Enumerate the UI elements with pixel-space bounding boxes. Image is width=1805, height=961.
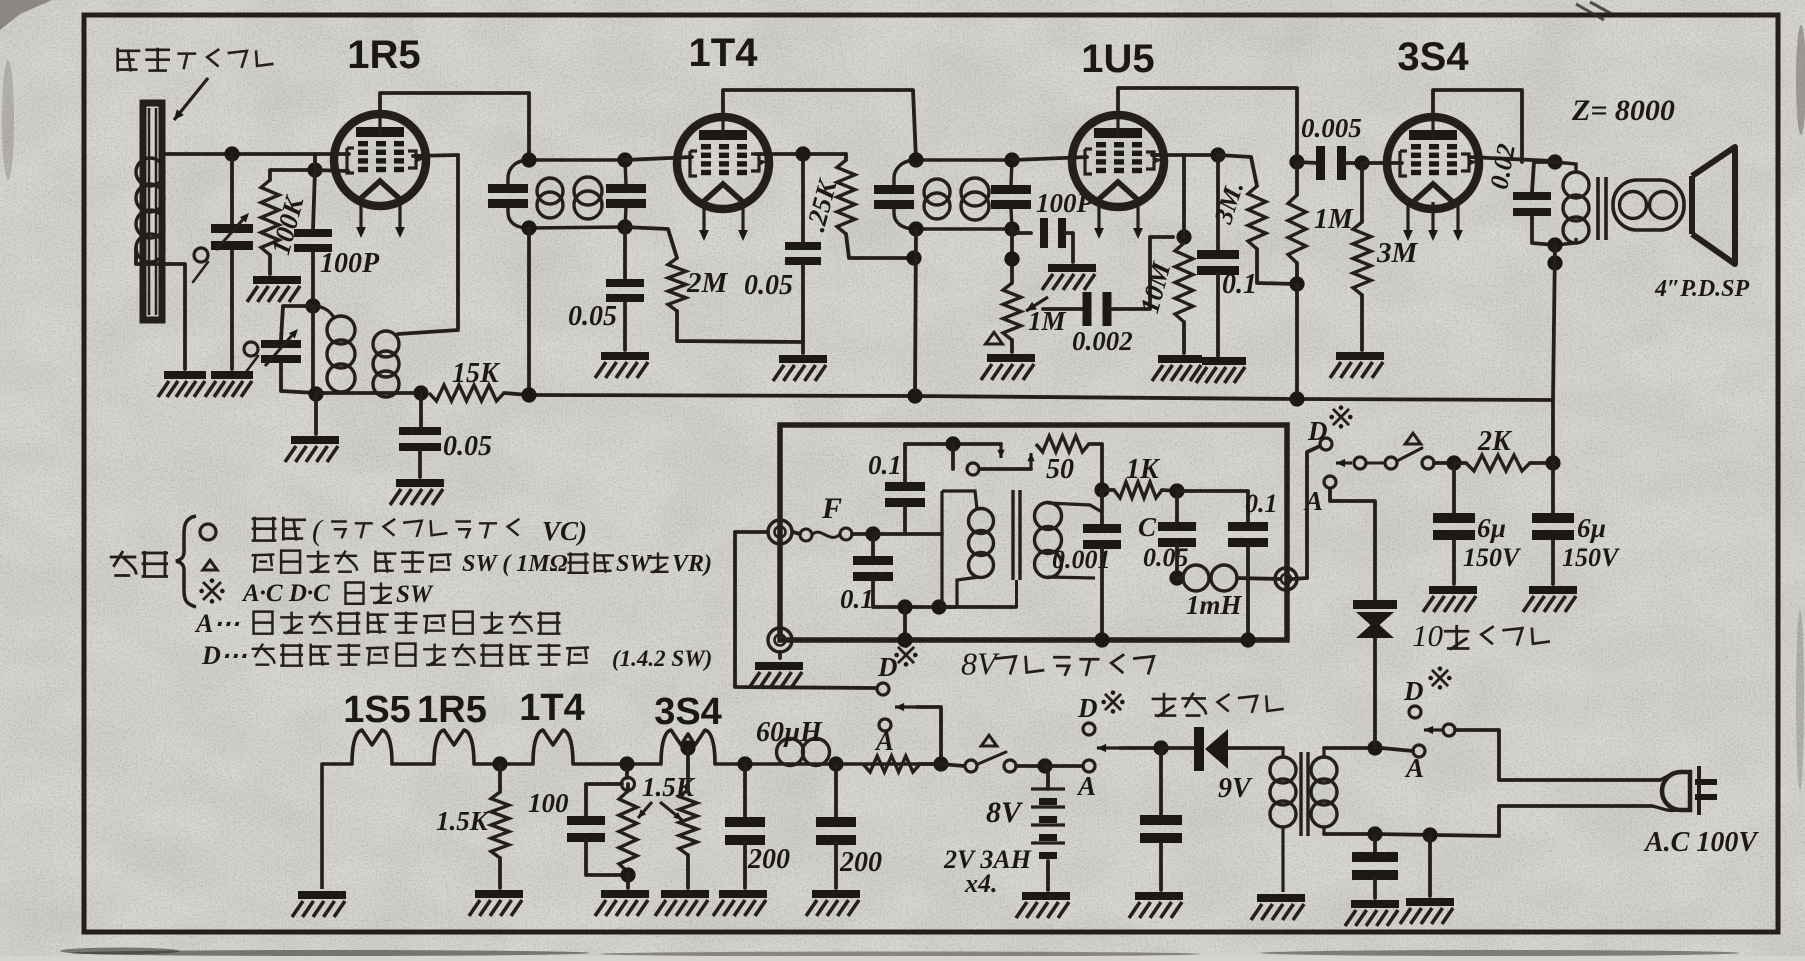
wire 0.1 lower to bottom <box>873 579 955 607</box>
wire 1T4 screen <box>756 152 846 156</box>
svg-text:3S4: 3S4 <box>1397 35 1469 79</box>
node selenium left <box>1153 740 1168 755</box>
svg-text:1U5: 1U5 <box>1081 37 1154 81</box>
ground <box>469 890 523 916</box>
node 1K right <box>1169 483 1184 498</box>
wire 1M to ground <box>1010 340 1014 352</box>
contact D below box <box>877 683 889 695</box>
wire to box bottom <box>903 607 907 638</box>
contact A below box <box>879 719 891 731</box>
wire to 0.05 decoupling <box>419 393 423 427</box>
junction rail 1M <box>1289 391 1304 406</box>
legend circle symbol <box>200 524 216 540</box>
svg-text:A: A <box>874 726 894 756</box>
svg-text:150V: 150V <box>1562 543 1621 572</box>
potentiometer 1.5K filament <box>619 791 637 872</box>
label 0.001 <box>1052 545 1111 574</box>
ground <box>158 371 206 397</box>
svg-text:60µH: 60µH <box>756 717 823 748</box>
wire to 200 <box>743 764 747 817</box>
wire centertap down <box>686 748 690 790</box>
svg-text:D: D <box>1307 416 1328 446</box>
junction box bottom 2 <box>1094 632 1109 647</box>
wire vibrator to D contact <box>735 532 876 688</box>
wire to cap <box>1159 748 1163 815</box>
svg-text:1M: 1M <box>1314 204 1354 235</box>
svg-text:10: 10 <box>1412 618 1444 653</box>
wire A contact to transformer <box>1381 748 1413 751</box>
capacitor IFT2 primary <box>874 185 914 209</box>
wire <box>1102 488 1114 492</box>
ground <box>1330 352 1384 378</box>
gang slash <box>193 262 208 282</box>
label 8V <box>986 796 1024 829</box>
wire 100K top to grid node <box>270 170 315 180</box>
junction fil pot <box>619 756 634 771</box>
contact arm 2 <box>1385 457 1397 469</box>
label 1.5K fil <box>436 806 490 836</box>
ground <box>390 479 444 505</box>
junction box bottom 3 <box>1240 632 1255 647</box>
wire OPT top to 0.02 <box>1532 162 1555 192</box>
wire 0.1 upper to top wire <box>903 444 907 482</box>
wire to C cap <box>1175 491 1179 522</box>
wire 1mH to terminal <box>1237 578 1280 579</box>
wire to ground <box>834 843 838 888</box>
wire 1R5 plate to osc coil <box>398 155 458 334</box>
wire .25K to B+ <box>846 234 914 258</box>
node osc bottom <box>308 386 323 401</box>
ground <box>773 355 827 381</box>
wire vibrator to D contact top <box>1307 446 1320 578</box>
wire to padder cap <box>281 306 313 340</box>
capacitor 100P grid <box>294 229 332 252</box>
wire arm to selenium <box>1120 746 1161 750</box>
label 100K <box>265 192 310 258</box>
tube 3S4 <box>1387 117 1479 241</box>
node 15K left <box>413 385 428 400</box>
wire 0.005 to 3S4 grid <box>1345 161 1362 165</box>
wire to B+ rail <box>1295 284 1299 399</box>
node 0.005 <box>1289 154 1304 169</box>
node 3S4 grid <box>1354 155 1369 170</box>
label 6u first <box>1477 513 1506 543</box>
svg-text:1R5: 1R5 <box>347 33 420 77</box>
legend line3 ACDC <box>241 580 330 607</box>
contact arm 1 <box>1354 457 1366 469</box>
contact circle vibrator <box>967 463 979 475</box>
wire to ground <box>686 855 690 888</box>
node pot bottom <box>620 867 635 882</box>
wire into 3S4 grid <box>1362 161 1402 165</box>
output transformer core <box>1598 177 1606 240</box>
wire 0.05 to ground <box>623 302 627 350</box>
svg-text:8V: 8V <box>986 796 1024 829</box>
label 0.05 <box>443 431 492 462</box>
wire fuse to node <box>852 532 873 536</box>
wire 10M to ground <box>1182 322 1186 353</box>
label 3S4 <box>1397 35 1469 79</box>
wire 3S4 plate to OPT <box>1469 157 1553 161</box>
contact common right <box>1443 724 1455 736</box>
svg-text:0.05: 0.05 <box>744 270 793 301</box>
contact D battery <box>1083 723 1095 735</box>
resistor 1.5K second <box>679 790 697 855</box>
wiper arrow pot 2 <box>660 802 682 820</box>
svg-text:D: D <box>877 652 898 682</box>
svg-text:A.C 100V: A.C 100V <box>1643 827 1759 858</box>
wire OPT bottom to B+ rail <box>1553 245 1555 400</box>
wire 50 to 1K node <box>1089 444 1102 490</box>
wire terminal to fuse <box>793 532 800 534</box>
label 1K <box>1126 454 1161 485</box>
svg-text:0.1: 0.1 <box>1245 489 1278 518</box>
junction fil 1.5K <box>492 756 507 771</box>
wire 0.001 to box bottom <box>1100 547 1104 640</box>
wire to rectifier <box>1161 746 1194 750</box>
filament rail <box>322 730 941 889</box>
wire 15K to rail <box>504 393 529 395</box>
svg-text:1mH: 1mH <box>1186 590 1243 620</box>
label 0.02 <box>1484 142 1520 192</box>
vibrator transformer core <box>1013 490 1020 607</box>
label D top <box>1307 416 1328 446</box>
wire pot to ground <box>626 875 630 888</box>
ground <box>595 890 649 916</box>
capacitor 0.05 decoupling <box>399 427 441 451</box>
svg-text:1R5: 1R5 <box>417 689 487 731</box>
label 10M <box>1134 258 1176 316</box>
svg-text:SW: SW <box>396 581 434 608</box>
label 1.5K pot <box>642 772 696 802</box>
wire 1U5 diode plate <box>1152 153 1218 157</box>
wire switch common to rail <box>917 707 941 764</box>
node IFT1 bot-right <box>617 219 632 234</box>
wire IFT1 to 2M <box>625 227 677 258</box>
wire 1M top <box>1295 162 1299 195</box>
ground <box>247 276 301 302</box>
ground filament left <box>292 891 346 917</box>
wire <box>1177 576 1183 580</box>
label 10-plate selen <box>1412 618 1550 653</box>
wire B+ rail <box>529 395 1553 463</box>
wire 3M second to ground <box>1360 295 1364 350</box>
ground transformer primary <box>1251 894 1305 920</box>
node 10M top <box>1176 229 1191 244</box>
capacitor 0.1 vibrator right <box>1228 522 1268 547</box>
node .25K/B+ <box>906 250 921 265</box>
wire IFT1 to 1T4 grid <box>625 157 692 160</box>
tube 1U5 <box>1072 115 1164 239</box>
wire wiper to 0.002 <box>1043 307 1085 311</box>
label A below box <box>874 726 894 756</box>
ground <box>595 352 649 378</box>
junction fil 200 second <box>828 756 843 771</box>
wire secondary top <box>1324 746 1375 750</box>
ground <box>1523 586 1577 612</box>
label rendou <box>110 551 168 577</box>
svg-text:200: 200 <box>839 847 882 878</box>
svg-text:0.05: 0.05 <box>1143 543 1189 572</box>
label 1T4 fil <box>519 687 584 729</box>
label 0.05 AVC <box>568 301 617 332</box>
wire battery to ground <box>1046 861 1050 890</box>
wire <box>498 764 502 792</box>
wire to cap <box>1373 836 1377 852</box>
arrow 50 pot left <box>997 444 1004 458</box>
wire rectifier to transformer <box>1228 746 1283 750</box>
wire to 0.1 <box>1216 155 1220 250</box>
wire osc to ground <box>314 394 318 434</box>
legend mark symbol <box>199 578 224 603</box>
vibrator transformer secondary <box>1035 503 1103 579</box>
mark right switch <box>1428 666 1451 689</box>
label 15K <box>452 358 501 389</box>
svg-text:0.1: 0.1 <box>1222 269 1257 300</box>
capacitor IFT2 secondary <box>991 185 1031 209</box>
wire 6u second to ground <box>1551 540 1555 584</box>
tube 1T4 <box>677 117 769 241</box>
label 200 first <box>747 844 790 875</box>
rod antenna <box>143 103 162 320</box>
legend triangle symbol <box>203 560 217 570</box>
resistor 100K <box>261 180 279 255</box>
wire antenna coil to ground <box>136 248 185 369</box>
triangle AC/DC switch <box>1405 433 1421 444</box>
rectifier 10-plate selenium <box>1353 600 1397 638</box>
junction AC rail cap <box>1367 826 1382 841</box>
ground <box>713 890 767 916</box>
node secondary/selenium <box>1367 740 1382 755</box>
capacitor AC filter <box>1352 852 1398 880</box>
wire battery top <box>1046 766 1050 789</box>
node 1K left <box>1094 482 1109 497</box>
svg-text:200: 200 <box>747 844 790 875</box>
wire to 200 second <box>834 764 838 817</box>
wire IFT1 to 0.05 <box>623 227 627 279</box>
svg-text:2K: 2K <box>1477 426 1513 457</box>
contact A right <box>1413 745 1425 757</box>
capacitor 100 <box>567 816 605 842</box>
choke 1mH <box>1048 565 1237 591</box>
output transformer secondary / voice coil <box>1613 180 1684 230</box>
legend D <box>201 641 247 670</box>
junction box bottom 1 <box>897 632 912 647</box>
gang symbol osc <box>244 342 258 356</box>
label A top <box>1303 486 1323 516</box>
wire <box>626 784 630 791</box>
wire to AC plug bottom <box>1499 806 1652 836</box>
mark below box <box>894 643 917 666</box>
gang slash osc <box>243 356 258 376</box>
wire between contacts <box>1366 462 1385 465</box>
svg-text:15K: 15K <box>452 358 501 389</box>
node IFT2 top-right <box>1004 152 1019 167</box>
switch arm AC/DC <box>1336 459 1352 467</box>
resistor 1M grid <box>1288 195 1306 263</box>
wire osc bottom rail <box>316 391 421 395</box>
ground <box>981 354 1035 380</box>
label bou-jou antenna <box>118 48 274 72</box>
capacitor 0.1 vibrator lower <box>853 556 893 581</box>
switch lever AC/DC <box>1397 448 1422 461</box>
resistor 1.5K filament <box>491 792 509 858</box>
wire 1T4 plate to IFT2 <box>723 90 916 160</box>
node 1M/3M bottom <box>1289 276 1304 291</box>
variable capacitor tuning VC1 <box>211 224 253 250</box>
label 1U5 <box>1081 37 1154 81</box>
label D right <box>1403 676 1424 706</box>
AC plug <box>1652 766 1717 815</box>
svg-text:0.05: 0.05 <box>568 301 617 332</box>
oscillator coil secondary <box>373 331 399 397</box>
capacitor 0.02 <box>1513 192 1551 216</box>
power transformer core <box>1301 752 1308 836</box>
label 0.05 C <box>1143 543 1189 572</box>
power transformer secondary <box>1311 748 1337 834</box>
capacitor IFT1 secondary <box>606 184 646 208</box>
mark battery switch <box>1101 690 1124 713</box>
node 2K right <box>1545 455 1560 470</box>
switch arm battery <box>1097 744 1120 752</box>
junction fil 200 first <box>737 756 752 771</box>
svg-text:0.002: 0.002 <box>1072 326 1133 356</box>
scan smudge top-left corner <box>0 0 52 180</box>
node OPT top <box>1547 154 1562 169</box>
switch arm right <box>1424 726 1443 734</box>
legend brace <box>176 516 196 607</box>
legend line1 doucho <box>252 517 306 541</box>
svg-text:2M: 2M <box>686 267 729 299</box>
label A right <box>1404 753 1424 783</box>
svg-text:SW ( 1MΩ: SW ( 1MΩ <box>462 551 568 577</box>
resistor 10M <box>1175 243 1193 322</box>
legend line2 onryou <box>252 551 452 573</box>
oscillator coil primary <box>313 306 355 392</box>
wire cap to ground <box>1373 878 1377 898</box>
wire 1M bottom <box>1295 263 1299 284</box>
svg-text:9V: 9V <box>1218 773 1253 804</box>
contact D right <box>1409 706 1421 718</box>
ground <box>1196 357 1246 383</box>
node OPT bottom 2 <box>1547 255 1562 270</box>
wire AC bottom rail <box>1375 834 1499 836</box>
label 0.1 right <box>1245 489 1278 518</box>
wire to contact <box>951 444 955 469</box>
resistor .25K <box>837 160 855 234</box>
node battery top <box>1037 758 1052 773</box>
wire 1K right <box>1162 490 1177 491</box>
contact A battery <box>1083 760 1095 772</box>
capacitor filter low-V <box>1140 815 1182 843</box>
junction rail IFT1 <box>521 387 536 402</box>
fuse F <box>800 528 852 541</box>
wire to 6u first <box>1452 463 1456 513</box>
ground <box>1016 892 1070 918</box>
node fuse/0.1 <box>865 526 880 541</box>
capacitor 0.1 <box>1197 250 1239 275</box>
label 100P <box>320 248 380 279</box>
wire 0.02 bottom <box>1532 216 1555 245</box>
gang symbol tuning <box>194 248 208 262</box>
label 0.1 upper <box>868 450 902 480</box>
wire <box>625 770 629 778</box>
node IFT2 bot-left <box>908 221 923 236</box>
label 100 <box>528 788 569 818</box>
label .25K <box>800 175 843 235</box>
label x4 <box>964 869 998 898</box>
legend VC <box>542 516 587 546</box>
label D battery <box>1077 693 1098 723</box>
potentiometer 1M volume <box>1003 283 1021 340</box>
contact pot top <box>622 778 635 791</box>
capacitor 200 first <box>725 817 765 845</box>
label 3M second <box>1376 237 1419 269</box>
scan smudge right edge <box>1796 25 1805 790</box>
label 1S5 <box>343 689 411 731</box>
contact battery switch right <box>1004 760 1016 772</box>
capacitor 0.05 AVC <box>606 279 644 302</box>
wire 1U5 plate to 0.005 node <box>1118 88 1297 162</box>
label F fuse <box>821 492 842 525</box>
ground <box>655 890 709 916</box>
legend line4 <box>254 612 561 634</box>
wire IFT2 to 1U5 grid <box>1012 157 1087 160</box>
label 6u second <box>1577 513 1606 543</box>
label 1M grid <box>1314 204 1354 235</box>
label A battery <box>1076 771 1096 801</box>
node IFT1 top-right <box>617 152 632 167</box>
wire 2M to 0.05 node <box>677 311 803 342</box>
svg-text:A⋯: A⋯ <box>194 609 239 638</box>
legend line5 <box>252 644 589 666</box>
junction rail IFT2 <box>907 388 922 403</box>
svg-text:x4.: x4. <box>964 869 998 898</box>
capacitor 0.005 <box>1316 146 1346 180</box>
power transformer primary <box>1270 748 1296 892</box>
svg-text:4″P.D.SP: 4″P.D.SP <box>1654 276 1750 302</box>
svg-text:1S5: 1S5 <box>343 689 411 731</box>
label 0.05 1T4 <box>744 270 793 301</box>
variable capacitor osc VC2 <box>261 340 301 363</box>
junction switch/battery rail <box>933 756 948 771</box>
wire to 2K <box>1434 461 1454 465</box>
label C <box>1138 512 1157 542</box>
svg-text:6µ: 6µ <box>1477 513 1506 543</box>
svg-text:150V: 150V <box>1463 543 1522 572</box>
wire C to 1mH wire <box>1175 545 1179 578</box>
svg-text:1T4: 1T4 <box>519 687 584 729</box>
svg-text:3S4: 3S4 <box>654 691 722 733</box>
wire selenium to transformer <box>1373 638 1377 748</box>
wire 3S4 screen to OPT <box>1433 90 1522 162</box>
label 3M first <box>1208 178 1249 228</box>
capacitor 6u first <box>1433 513 1475 540</box>
wire top to 50 pot <box>905 442 1001 446</box>
node 1mH left <box>1169 570 1184 585</box>
wiper arrow 1M <box>1026 297 1048 311</box>
svg-text:3M: 3M <box>1376 237 1419 269</box>
wire terminal to ground <box>778 652 782 658</box>
svg-text:50: 50 <box>1046 454 1074 485</box>
label D below box <box>877 652 898 682</box>
label 9V <box>1218 773 1253 804</box>
scan streak top border <box>1576 2 1612 20</box>
wire 3M to 1M bottom <box>1257 249 1297 284</box>
IF transformer IFT1 <box>508 160 626 228</box>
wire node to transformer area <box>873 532 942 536</box>
label 8V vibrator unit <box>961 646 1154 682</box>
